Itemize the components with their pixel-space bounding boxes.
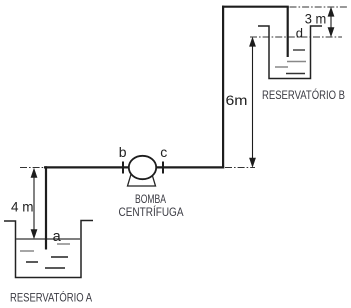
svg-text:3 m: 3 m: [305, 10, 327, 26]
svg-text:BOMBA: BOMBA: [135, 192, 166, 206]
svg-text:CENTRÍFUGA: CENTRÍFUGA: [119, 204, 184, 219]
svg-text:c: c: [160, 144, 167, 160]
svg-text:RESERVATÓRIO A: RESERVATÓRIO A: [10, 290, 92, 305]
svg-text:RESERVATÓRIO B: RESERVATÓRIO B: [262, 87, 345, 102]
svg-text:b: b: [119, 144, 127, 160]
svg-text:6m: 6m: [226, 92, 248, 108]
svg-text:a: a: [53, 229, 62, 245]
svg-text:d: d: [296, 25, 303, 40]
svg-text:4 m: 4 m: [11, 199, 34, 215]
